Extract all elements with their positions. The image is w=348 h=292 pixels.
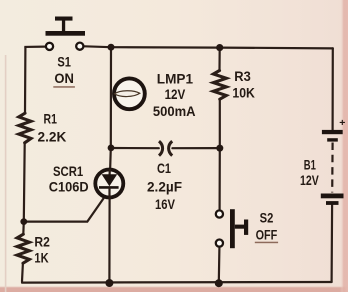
svg-text:S1: S1 [57,54,71,70]
capacitor C1 left plate [159,141,163,155]
SCR1 symbol circle [95,170,123,198]
lamp LMP1 filament lens [114,91,139,97]
svg-text:16V: 16V [155,196,176,212]
resistor R1 zigzag [19,113,31,143]
svg-text:SCR1: SCR1 [53,163,83,179]
SCR1 triangle [102,174,118,186]
bottom pink border strip [0,286,348,292]
battery B1 plate 1 (long) [322,130,343,134]
SCR1 cathode bar [99,186,119,189]
switch S2 bottom terminal [216,240,223,247]
switch S2 plunger stem [235,225,245,229]
right pink border strip [340,0,348,292]
switch S1 plunger cap [55,17,73,21]
svg-text:OFF: OFF [256,227,278,243]
wire capacitor branch right [172,147,219,149]
svg-text:1K: 1K [34,250,48,266]
svg-text:2.2K: 2.2K [38,129,67,145]
svg-text:B1: B1 [304,157,316,173]
svg-text:12V: 12V [165,86,186,102]
wire middle column (cap node to SCR top) [109,148,112,174]
underline under OFF [255,242,278,244]
wire left rail upper (corner to R1) [24,47,27,113]
svg-text:C1: C1 [157,160,171,176]
svg-text:C106D: C106D [49,178,89,194]
wire left rail bottom to corner [21,263,24,281]
switch S2 plunger cap [244,220,248,235]
wire top-left to S1 left terminal [25,45,45,48]
resistor R3 zigzag [213,71,226,100]
svg-text:R1: R1 [44,111,58,127]
node junction top right (R3) [216,44,223,51]
wire R3 column upper (top node to R3) [218,48,220,71]
node junction bottom right [215,279,223,287]
switch S1 left terminal [46,43,53,50]
svg-text:12V: 12V [300,172,319,188]
wire capacitor branch left [111,147,159,149]
node junction bottom middle [105,279,113,287]
wire middle column lower (SCR bottom to bottom rail) [108,199,110,282]
wire cap node down to S2 top terminal [219,148,221,209]
wire left rail lower (gate node to R2) [22,222,25,235]
switch S1 right terminal [76,43,83,50]
battery B1 plate 4 (short) [326,201,339,205]
svg-text:500mA: 500mA [153,103,196,119]
left faint scan line [5,55,7,292]
switch S1 plunger stem [62,20,65,31]
underline under ON [53,86,75,88]
wire bottom rail [22,281,332,284]
svg-text:R2: R2 [34,234,50,250]
SCR1 cathode wire inside [108,187,110,199]
node junction cap left [108,145,115,152]
node junction top middle [108,44,115,51]
switch S1 contact bar [46,31,86,36]
switch S2 contact bar [230,209,235,248]
battery B1 plate 3 (long) [321,194,344,199]
wire middle column upper (top node through lamp to cap node) [110,47,112,148]
node junction gate / left rail [20,218,27,225]
battery B1 dashed internal cells [331,143,334,193]
resistor R2 zigzag [17,234,29,263]
svg-text:10K: 10K [232,85,255,101]
svg-text:S2: S2 [260,210,274,226]
battery B1 plate 2 (short) [327,138,338,141]
wire S2 bottom terminal to bottom rail [218,248,221,282]
wire SCR gate lead [24,197,105,222]
svg-text:2.2µF: 2.2µF [147,178,182,194]
lamp LMP1 [114,78,145,109]
switch S2 top terminal [216,210,223,217]
svg-text:R3: R3 [234,68,251,84]
SCR1 anode wire inside [108,169,110,175]
node junction cap right [216,145,223,152]
wire left rail middle (R1 to gate node) [23,143,26,221]
wire top rail from S1 right terminal to top-right corner [85,46,333,48]
wire R3 to cap node [219,99,221,148]
capacitor C1 right plate [169,141,173,155]
svg-text:LMP1: LMP1 [157,70,193,86]
wire right rail lower (battery bottom to corner) [331,205,334,282]
wire right rail upper (corner to battery top) [332,48,334,129]
svg-text:+: + [339,117,345,129]
svg-text:ON: ON [54,70,74,86]
